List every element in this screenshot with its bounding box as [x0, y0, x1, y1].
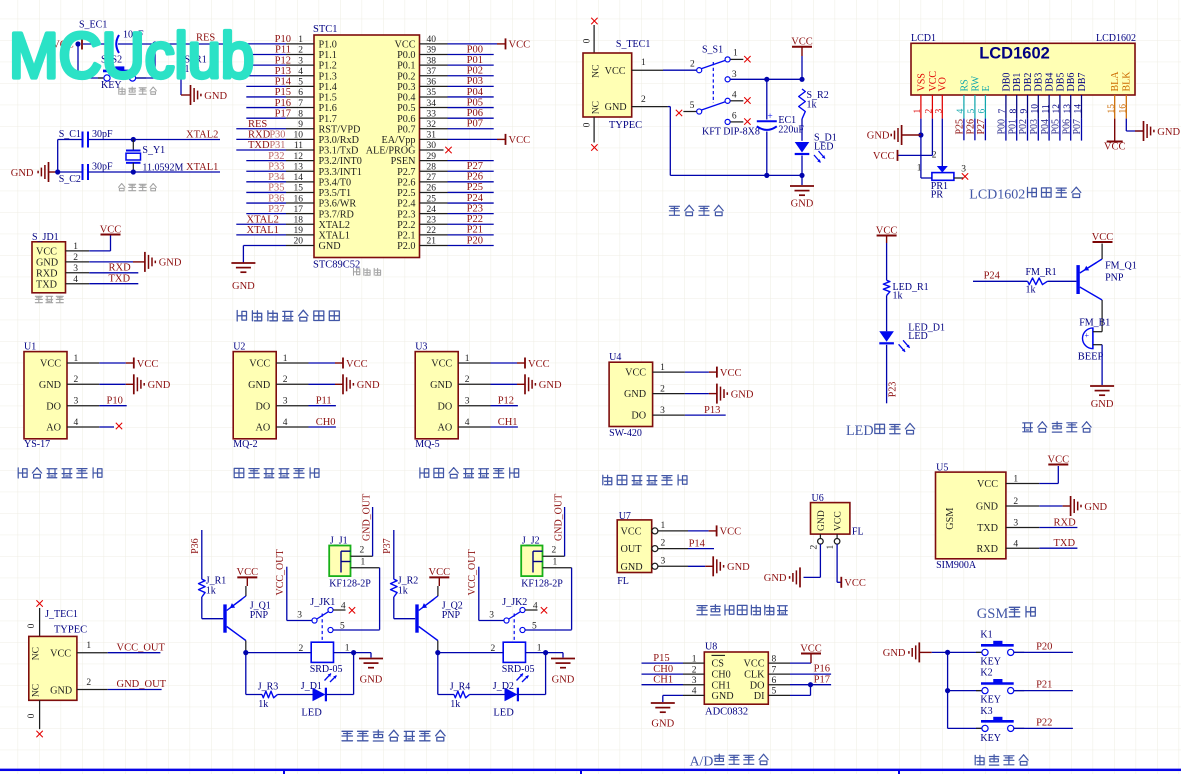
svg-text:EA/Vpp: EA/Vpp [382, 135, 416, 146]
svg-text:BLK: BLK [1122, 71, 1133, 92]
wire to ground [354, 652, 371, 654]
junction XTAL2 [131, 137, 136, 142]
switch S_S2 KEY [98, 77, 104, 79]
wire U8 pin5 DI [768, 694, 790, 696]
svg-text:2: 2 [283, 375, 288, 385]
svg-text:P2.6: P2.6 [397, 177, 415, 188]
svg-text:GND: GND [651, 719, 674, 730]
junction collector/coil/LED [243, 650, 248, 655]
wire pin 21 [448, 244, 494, 246]
svg-text:VCC: VCC [800, 643, 822, 654]
svg-text:1: 1 [74, 354, 79, 364]
svg-text:P06: P06 [467, 108, 483, 119]
svg-text:MQ-2: MQ-2 [233, 439, 257, 450]
svg-text:RW: RW [970, 75, 981, 91]
wire pin2 GND [309, 383, 336, 385]
svg-text:DB5: DB5 [1055, 73, 1066, 92]
svg-text:3: 3 [297, 610, 302, 620]
svg-text:NC: NC [31, 684, 42, 697]
wire U4 pin3 DO [685, 414, 726, 416]
wire pin3 RXD [89, 272, 138, 274]
svg-text:VCC: VCC [1104, 142, 1126, 153]
svg-text:P3.6/WR: P3.6/WR [319, 199, 357, 210]
svg-text:S_S1: S_S1 [702, 44, 723, 55]
wire pin 13 [246, 170, 286, 172]
svg-text:P0.1: P0.1 [397, 61, 415, 72]
transistor J_Q1 PNP [223, 604, 226, 632]
svg-text:1: 1 [465, 354, 470, 364]
section title U3 [420, 468, 429, 478]
ground (U5) [1070, 496, 1072, 516]
svg-text:FL: FL [617, 576, 629, 587]
svg-text:XTAL2: XTAL2 [319, 220, 350, 231]
wire GND side down [668, 106, 670, 108]
svg-text:VCC: VCC [528, 359, 550, 370]
svg-text:DB6: DB6 [1066, 73, 1077, 92]
wire rail to K2 [948, 690, 982, 692]
wire collector down [245, 641, 247, 653]
power port VCC (backlight) [1107, 141, 1123, 143]
resistor S_R2 1k [799, 89, 806, 119]
wire U8 pin3 CH1 [642, 684, 684, 686]
svg-text:VCC: VCC [605, 66, 626, 77]
label button-reset (gray) [119, 87, 125, 94]
wire pin 7 [246, 107, 286, 109]
svg-text:P0.7: P0.7 [397, 124, 415, 135]
svg-text:GND: GND [727, 562, 750, 573]
resistor S_R1 [180, 44, 182, 57]
svg-text:P12: P12 [498, 396, 514, 407]
resistor J_R3 1k [262, 691, 278, 698]
wire GND_OUT [108, 689, 162, 691]
svg-text:P11: P11 [316, 396, 332, 407]
wire pin 10 [236, 138, 286, 140]
wire VCC stem [801, 56, 803, 79]
wire XTAL1 row [89, 171, 221, 173]
svg-text:KEY: KEY [980, 657, 1001, 668]
wire resistor to diode [278, 694, 313, 696]
svg-text:CH1: CH1 [712, 680, 731, 691]
ground (buzzer) [1090, 385, 1114, 387]
svg-text:2: 2 [86, 678, 91, 688]
wire pin 14 [246, 181, 286, 183]
svg-text:RXD: RXD [248, 130, 271, 141]
svg-text:+: + [767, 112, 772, 122]
svg-text:P13: P13 [704, 405, 720, 416]
wire pin 15 [246, 191, 286, 193]
overline on CS [712, 654, 726, 656]
svg-text:4: 4 [283, 418, 288, 428]
svg-text:7: 7 [998, 109, 1008, 114]
svg-text:P37: P37 [268, 204, 284, 215]
wire U6 pin2 to GND [819, 544, 821, 577]
svg-text:30pF: 30pF [92, 162, 113, 173]
ground (S_JD1) [144, 252, 146, 272]
svg-text:VCC: VCC [237, 567, 259, 578]
ground (U8) [651, 702, 675, 704]
wire pin 40 VCC [448, 43, 498, 45]
wire U6 pin1 to VCC [836, 544, 838, 582]
svg-text:VCC: VCC [431, 359, 452, 370]
svg-text:P3.3/INT1: P3.3/INT1 [319, 167, 362, 178]
svg-text:P1.6: P1.6 [319, 103, 337, 114]
svg-text:1k: 1k [206, 586, 216, 597]
svg-text:STC1: STC1 [313, 24, 338, 35]
svg-text:VSS: VSS [916, 73, 927, 91]
svg-text:VCC: VCC [509, 135, 531, 146]
svg-text:1: 1 [661, 521, 666, 531]
svg-text:4: 4 [956, 109, 966, 114]
module U8 box [704, 652, 768, 704]
wire U8 pin2 CH0 [642, 673, 684, 675]
svg-text:XTAL2: XTAL2 [186, 130, 218, 141]
svg-text:GND: GND [1091, 399, 1114, 410]
svg-text:DO: DO [750, 680, 765, 691]
svg-text:U3: U3 [415, 342, 427, 353]
wire key branch left [77, 44, 79, 78]
power port VCC (J_Q1) [237, 576, 257, 578]
module U6 box [811, 503, 850, 534]
svg-text:2: 2 [641, 95, 646, 105]
wire U8 pin8 VCC [768, 662, 790, 664]
svg-text:SRD-05: SRD-05 [502, 664, 535, 675]
svg-text:FM_R1: FM_R1 [1026, 267, 1057, 278]
svg-text:DB7: DB7 [1077, 73, 1088, 92]
junction coil/LED right [543, 650, 548, 655]
wire VSS down [920, 119, 922, 135]
wire S_EC1 to RES node [118, 43, 225, 45]
wire coil pin1 [526, 652, 546, 654]
wire to ground [546, 652, 563, 654]
svg-text:VCC: VCC [844, 578, 866, 589]
svg-text:TXD: TXD [1054, 538, 1076, 549]
svg-text:P10: P10 [107, 396, 123, 407]
svg-text:16: 16 [1119, 104, 1129, 114]
pin4 no-connect [99, 426, 114, 428]
svg-text:A/D: A/D [690, 754, 714, 769]
svg-text:P2.5: P2.5 [397, 188, 415, 199]
wire pin 22 [448, 234, 494, 236]
module U1 box [24, 352, 67, 439]
wire U5 pin2 to GND [1039, 505, 1062, 507]
svg-text:3: 3 [465, 397, 470, 407]
svg-text:DB4: DB4 [1045, 73, 1056, 92]
svg-text:1: 1 [361, 558, 366, 568]
wire pin2 to GND [89, 261, 133, 263]
wire U5 pin3 [1039, 527, 1077, 529]
svg-text:RES: RES [248, 119, 267, 130]
svg-text:AO: AO [437, 423, 452, 434]
wire K2 to P21 [1014, 690, 1073, 692]
resistor J_R4 1k [454, 691, 470, 698]
wire pin 3 [246, 64, 286, 66]
svg-text:P1.1: P1.1 [319, 50, 337, 61]
svg-text:1: 1 [86, 641, 91, 651]
wire pin 24 [448, 213, 494, 215]
module U7 box [617, 520, 652, 573]
svg-text:ADC0832: ADC0832 [705, 707, 748, 718]
svg-text:U8: U8 [705, 642, 717, 653]
svg-text:U1: U1 [24, 342, 36, 353]
svg-text:220uF: 220uF [778, 124, 804, 135]
svg-text:1: 1 [913, 109, 923, 114]
wire U4 pin1 VCC [685, 371, 709, 373]
svg-text:P07: P07 [467, 119, 483, 130]
svg-text:P30: P30 [270, 130, 286, 141]
svg-text:P11: P11 [275, 45, 291, 56]
wire pin 9 [236, 128, 286, 130]
wire BLK to GND [1125, 119, 1127, 131]
svg-text:VCC: VCC [395, 40, 416, 51]
svg-text:RXD: RXD [109, 263, 132, 274]
svg-text:AO: AO [46, 423, 61, 434]
wire U8 pin1 P15 [642, 662, 684, 664]
svg-text:RXD: RXD [1054, 517, 1077, 528]
relay coil SRD-05 J_JK2 [503, 642, 525, 662]
svg-text:6: 6 [978, 109, 988, 114]
wire VCC to S_EC1 [83, 43, 110, 45]
svg-text:0: 0 [583, 38, 593, 43]
svg-text:P23: P23 [467, 203, 483, 214]
svg-text:P24: P24 [984, 271, 1001, 282]
svg-text:VCC_OUT: VCC_OUT [467, 549, 478, 595]
no-connect bottom of S_TEC1 [593, 117, 595, 143]
ground (MCU) [231, 262, 255, 264]
svg-text:3: 3 [283, 397, 288, 407]
wire coil pin2 [246, 652, 311, 654]
svg-text:P3.5/T1: P3.5/T1 [319, 188, 352, 199]
wire to base [1047, 280, 1076, 282]
wire VCC to switch [663, 69, 696, 71]
svg-text:P20: P20 [467, 235, 483, 246]
svg-text:P22: P22 [1036, 717, 1052, 728]
power port VCC (U6) [840, 577, 842, 588]
wire pin 28 [448, 170, 494, 172]
svg-text:VCC: VCC [873, 151, 895, 162]
transistor FM_Q1 PNP [1076, 265, 1079, 294]
svg-text:GND: GND [159, 258, 182, 269]
power port VCC (LED circuit) [877, 235, 897, 237]
svg-text:PNP: PNP [250, 610, 269, 621]
junction EC1 bottom [764, 173, 769, 178]
svg-text:GND: GND [430, 380, 452, 391]
svg-text:P0.4: P0.4 [397, 93, 415, 104]
connector J_TEC1 box [29, 636, 77, 700]
svg-text:P2.4: P2.4 [397, 199, 415, 210]
svg-text:NC: NC [591, 101, 602, 114]
no-connect top of S_TEC1 [593, 25, 595, 53]
wire pin1 VCC [99, 362, 126, 364]
svg-text:DO: DO [631, 411, 646, 422]
svg-text:2: 2 [552, 546, 557, 556]
ground (LCD right) [1135, 130, 1144, 132]
crystal S_Y1 11.0592M [132, 140, 134, 151]
wire XTAL2 row [89, 139, 221, 141]
svg-text:8: 8 [1009, 109, 1019, 114]
junction S_D1 bottom [799, 173, 804, 178]
resistor LED_R1 1k [883, 280, 890, 295]
svg-text:KF128-2P: KF128-2P [329, 579, 371, 590]
LED J_D1 [313, 688, 326, 702]
power port VCC (U8) [801, 653, 821, 655]
svg-text:P0.0: P0.0 [397, 50, 415, 61]
wire P24 to FM_R1 [973, 280, 1028, 282]
svg-text:OUT: OUT [621, 544, 643, 555]
wire pin 4 [246, 75, 286, 77]
svg-text:P2.7: P2.7 [397, 167, 415, 178]
svg-text:P1.7: P1.7 [319, 114, 337, 125]
svg-text:VCC: VCC [40, 359, 61, 370]
wire U7 pin1 VCC [658, 530, 688, 532]
svg-text:P36: P36 [190, 538, 201, 554]
svg-text:S_C2: S_C2 [59, 174, 81, 185]
resistor J_R2 1k [391, 579, 398, 597]
svg-text:DB0: DB0 [1001, 73, 1012, 92]
svg-text:P21: P21 [467, 225, 483, 236]
junction DO/DI [808, 682, 813, 687]
wire LED branch left [245, 653, 247, 695]
svg-text:1: 1 [660, 363, 665, 373]
power port VCC pin40 [505, 38, 507, 49]
power port VCC (buzzer) [1093, 241, 1113, 243]
svg-text:BEEP: BEEP [1078, 352, 1104, 363]
svg-text:2: 2 [360, 546, 365, 556]
wire pin 29 PSEN [448, 160, 494, 162]
section title U1 [18, 468, 27, 478]
svg-text:P2.0: P2.0 [397, 241, 415, 252]
svg-text:J_D1: J_D1 [301, 681, 322, 692]
power port VCC (power circuit) [792, 46, 812, 48]
svg-text:10: 10 [1031, 104, 1041, 114]
svg-text:DB1: DB1 [1012, 73, 1023, 92]
svg-text:CH0: CH0 [712, 670, 731, 681]
svg-text:VCC: VCC [720, 368, 742, 379]
capacitor S_C1 30pF [58, 139, 82, 141]
svg-text:14: 14 [1074, 104, 1084, 114]
svg-text:P05: P05 [467, 97, 483, 108]
svg-text:2: 2 [690, 60, 695, 70]
power port VCC (U2) [342, 358, 344, 369]
svg-text:P14: P14 [275, 77, 292, 88]
wire diode to right [518, 694, 545, 696]
svg-text:J_R4: J_R4 [450, 681, 471, 692]
svg-text:P24: P24 [467, 193, 484, 204]
svg-text:P1.0: P1.0 [319, 40, 337, 51]
svg-text:P0.3: P0.3 [397, 82, 415, 93]
svg-text:P10: P10 [275, 34, 291, 45]
svg-text:PNP: PNP [1105, 273, 1124, 284]
svg-text:XTAL1: XTAL1 [186, 162, 218, 173]
svg-text:GND: GND [1084, 502, 1107, 513]
capacitor S_C2 30pF [58, 171, 82, 173]
svg-text:K2: K2 [980, 668, 992, 679]
svg-text:KEY: KEY [980, 695, 1001, 706]
svg-text:GND: GND [36, 258, 58, 269]
svg-text:LCD1602: LCD1602 [979, 45, 1050, 63]
svg-text:PR: PR [931, 189, 944, 200]
svg-text:2: 2 [932, 151, 937, 161]
wire U5 pin4 [1039, 547, 1077, 549]
svg-text:FL: FL [852, 527, 864, 538]
svg-text:GND_OUT: GND_OUT [554, 494, 565, 541]
wire pin 12 [246, 160, 286, 162]
ground (U2) [342, 374, 344, 394]
wire connector pin2 GND_OUT [543, 555, 565, 557]
svg-text:LCD1602: LCD1602 [969, 188, 1025, 203]
svg-text:13: 13 [1063, 104, 1073, 114]
wire pin1 to VCC [89, 250, 110, 252]
svg-text:TYPEC: TYPEC [54, 625, 87, 636]
wire VCC_OUT [108, 652, 161, 654]
svg-text:2: 2 [74, 375, 79, 385]
wire pin 16 [246, 202, 286, 204]
svg-text:P02: P02 [467, 66, 483, 77]
svg-text:GND: GND [539, 380, 562, 391]
svg-text:GSM: GSM [945, 508, 956, 530]
svg-text:P14: P14 [689, 538, 706, 549]
svg-text:VCC: VCC [509, 40, 531, 51]
svg-text:GND: GND [39, 380, 61, 391]
section title MCU minimal system [237, 311, 246, 322]
svg-text:P15: P15 [275, 87, 291, 98]
svg-text:TXD: TXD [977, 523, 998, 534]
wire pin2 GND [491, 383, 518, 385]
svg-text:J_TEC1: J_TEC1 [45, 609, 78, 620]
junction VSS/GND/pot [918, 132, 923, 137]
svg-text:P21: P21 [1036, 680, 1052, 691]
svg-text:GND: GND [50, 686, 72, 697]
wire VCC down-left [931, 119, 933, 156]
svg-text:9: 9 [1020, 109, 1030, 114]
svg-text:NC: NC [591, 65, 602, 78]
wire U5 pin1 to VCC [1039, 483, 1058, 485]
svg-text:1: 1 [537, 643, 542, 653]
power port VCC (U4) [716, 367, 718, 378]
wire U7 pin2 P14 [658, 548, 688, 550]
svg-text:VCC: VCC [429, 567, 451, 578]
wire coil pin1 [334, 652, 354, 654]
svg-text:VCC: VCC [720, 527, 742, 538]
transistor J_Q2 PNP [415, 604, 418, 632]
wire rail to K3 [948, 727, 982, 729]
wire pin1 VCC [491, 362, 518, 364]
wire pin 34 [448, 107, 494, 109]
section title U4 [603, 475, 612, 485]
svg-text:P00: P00 [467, 44, 483, 55]
module U4 box [609, 362, 653, 426]
svg-text:DI: DI [754, 691, 765, 702]
svg-text:2: 2 [660, 384, 665, 394]
svg-text:1k: 1k [807, 99, 817, 110]
svg-text:5: 5 [690, 101, 695, 111]
svg-text:ALE/PROG: ALE/PROG [366, 146, 416, 157]
svg-text:1k: 1k [398, 586, 408, 597]
svg-text:VCC_OUT: VCC_OUT [117, 642, 166, 653]
label MCU (gray) [354, 268, 360, 275]
svg-text:3: 3 [935, 109, 945, 114]
wire pin3 DO [99, 405, 126, 407]
svg-text:GND: GND [319, 241, 341, 252]
wire pin 32 [448, 128, 494, 130]
power port VCC (U3) [524, 358, 526, 369]
ground (U1) [133, 374, 135, 394]
switch K1 KEY [976, 651, 982, 653]
svg-text:FM_B1: FM_B1 [1079, 317, 1110, 328]
wire collector down [437, 641, 439, 653]
svg-text:P22: P22 [467, 214, 483, 225]
svg-text:3: 3 [74, 397, 79, 407]
svg-text:J_D2: J_D2 [493, 681, 514, 692]
